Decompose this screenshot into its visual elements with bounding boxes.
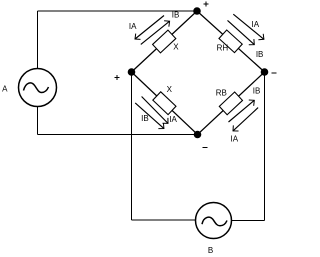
wire top horizontal xyxy=(38,10,198,12)
svg-text:X: X xyxy=(167,85,173,94)
svg-text:IA: IA xyxy=(252,20,260,29)
arrow IB arm bottom-right xyxy=(229,100,255,122)
wire to source B left xyxy=(132,219,196,221)
source B xyxy=(196,203,232,239)
minus bottom node xyxy=(203,146,208,148)
arrow IA arm left-top xyxy=(135,16,164,40)
wire bridge arm top-right xyxy=(197,11,265,72)
svg-text:RH: RH xyxy=(217,44,229,53)
node bottom xyxy=(194,131,202,139)
source A xyxy=(19,69,57,107)
arrow IB arm left-top xyxy=(141,21,170,44)
wire A bottom vertical xyxy=(37,107,39,135)
resistor RB xyxy=(219,92,242,115)
arrow IA arm left-bottom xyxy=(142,97,168,124)
wire left node vertical xyxy=(131,72,133,220)
svg-text:IB: IB xyxy=(253,87,261,96)
svg-text:X: X xyxy=(173,42,179,51)
svg-text:IA: IA xyxy=(231,135,239,144)
svg-text:IB: IB xyxy=(141,114,149,123)
svg-text:A: A xyxy=(2,84,8,93)
plus left node xyxy=(115,75,120,80)
arrow IB arm left-bottom xyxy=(135,103,164,129)
wire source B right xyxy=(232,220,265,222)
wire bottom horizontal to node xyxy=(38,134,198,136)
minus right node xyxy=(271,72,276,74)
arrow IB arm top-right xyxy=(228,20,255,44)
resistor X top-left xyxy=(153,30,176,53)
svg-text:IA: IA xyxy=(129,22,137,31)
plus top node xyxy=(203,2,208,7)
svg-text:IB: IB xyxy=(172,10,180,19)
wire right vertical xyxy=(264,72,266,221)
resistor X bottom-left xyxy=(153,92,176,115)
wire bridge arm bottom-right xyxy=(198,72,265,135)
svg-text:IB: IB xyxy=(256,50,264,59)
node left xyxy=(128,68,136,76)
arrow IA arm bottom-right xyxy=(233,108,258,131)
svg-text:RB: RB xyxy=(216,89,227,98)
resistor RH xyxy=(219,30,242,53)
svg-text:IA: IA xyxy=(169,115,177,124)
wire A top vertical xyxy=(37,11,39,69)
node top xyxy=(193,7,201,15)
wire bridge arm left-bottom xyxy=(132,72,198,135)
arrow IA arm top-right xyxy=(233,14,264,39)
svg-text:B: B xyxy=(208,246,213,255)
node right xyxy=(261,68,269,76)
wire bridge arm left-top xyxy=(132,11,198,72)
